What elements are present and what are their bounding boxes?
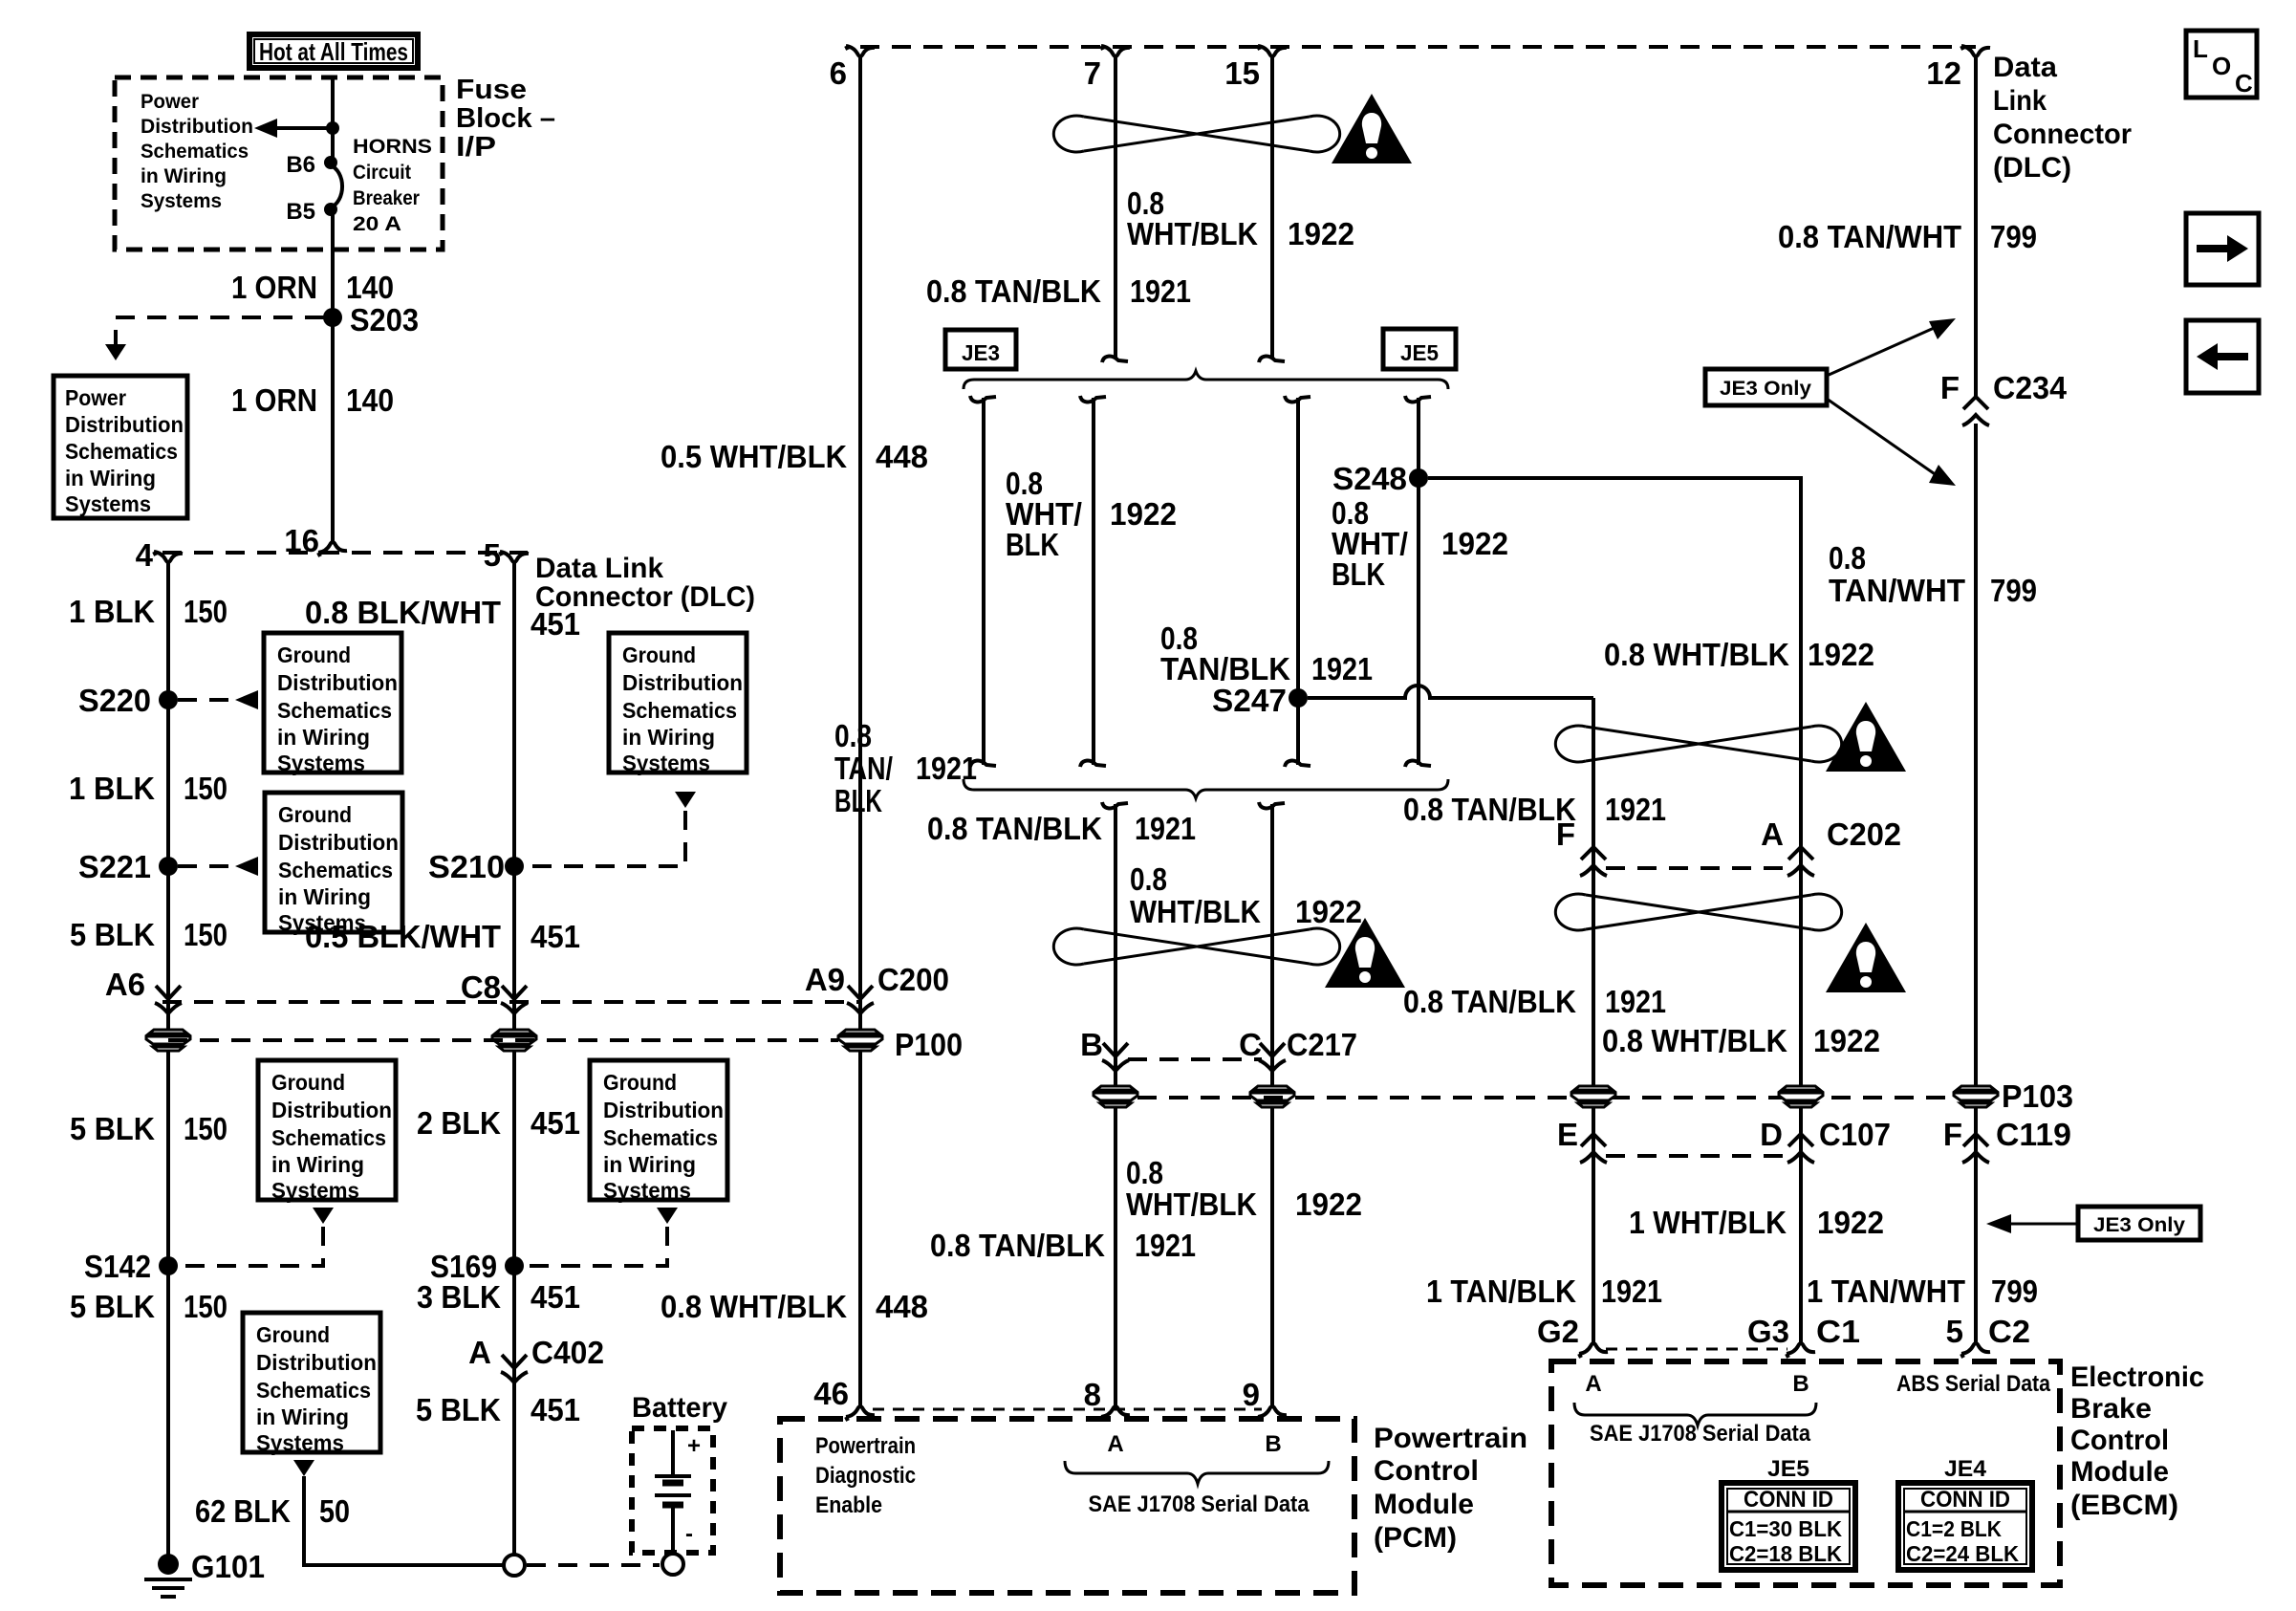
battery negative ring xyxy=(662,1554,683,1575)
svg-text:S247: S247 xyxy=(1212,683,1287,718)
svg-text:Control: Control xyxy=(2070,1425,2169,1456)
svg-text:448: 448 xyxy=(876,439,928,474)
svg-text:1922: 1922 xyxy=(1110,496,1177,532)
svg-text:451: 451 xyxy=(531,919,580,954)
svg-text:G2: G2 xyxy=(1537,1314,1579,1349)
svg-text:B: B xyxy=(1265,1431,1281,1457)
svg-text:TAN/WHT: TAN/WHT xyxy=(1829,573,1965,608)
grommet E xyxy=(1571,1086,1615,1107)
pin 16 hook xyxy=(318,531,347,556)
svg-text:Systems: Systems xyxy=(141,190,222,212)
svg-text:in Wiring: in Wiring xyxy=(65,466,156,490)
twisted pair symbol xyxy=(1555,726,1841,762)
svg-text:SAE J1708 Serial Data: SAE J1708 Serial Data xyxy=(1089,1491,1310,1517)
svg-text:0.8 TAN/BLK: 0.8 TAN/BLK xyxy=(930,1228,1105,1263)
wire 1921 to PCM 8 xyxy=(1114,804,1117,1400)
svg-text:(DLC): (DLC) xyxy=(1993,152,2071,184)
svg-text:0.8 WHT/BLK: 0.8 WHT/BLK xyxy=(661,1289,847,1324)
svg-text:8: 8 xyxy=(1084,1377,1101,1412)
svg-text:(PCM): (PCM) xyxy=(1374,1522,1457,1554)
svg-text:B5: B5 xyxy=(286,199,315,225)
splice S203 xyxy=(323,308,342,327)
svg-text:E: E xyxy=(1557,1117,1578,1152)
svg-text:46: 46 xyxy=(813,1376,849,1411)
svg-text:451: 451 xyxy=(531,606,580,642)
svg-text:0.8 WHT/BLK: 0.8 WHT/BLK xyxy=(1602,1023,1787,1058)
back arrow box xyxy=(2186,320,2259,393)
svg-text:D: D xyxy=(1760,1117,1783,1152)
svg-text:B: B xyxy=(1792,1371,1809,1397)
svg-text:C402: C402 xyxy=(531,1335,604,1370)
svg-text:Link: Link xyxy=(1993,85,2047,117)
svg-text:Breaker: Breaker xyxy=(353,187,420,209)
Power Distribution Schematics box xyxy=(54,376,187,518)
svg-text:Schematics: Schematics xyxy=(65,439,178,464)
lower brace xyxy=(964,779,1448,798)
svg-text:12: 12 xyxy=(1926,55,1961,91)
warning triangle xyxy=(1826,923,1906,992)
svg-text:5: 5 xyxy=(1946,1314,1963,1349)
grommets on 1921/1922 xyxy=(1094,1086,1137,1107)
svg-text:P103: P103 xyxy=(2002,1078,2073,1114)
connector C200 crossing (C8) xyxy=(501,986,528,1013)
DLC top connector dashed line xyxy=(860,45,1976,49)
svg-text:P100: P100 xyxy=(895,1027,963,1062)
wire 1922 drop (from S248) xyxy=(1799,478,1803,1339)
arrow under box 3 xyxy=(313,1208,334,1224)
splice S221 xyxy=(159,857,178,876)
EBCM brace xyxy=(1574,1403,1816,1426)
svg-text:Distribution: Distribution xyxy=(65,412,184,437)
svg-text:0.8 TAN/BLK: 0.8 TAN/BLK xyxy=(927,811,1102,846)
svg-text:Distribution: Distribution xyxy=(141,116,253,138)
svg-text:G3: G3 xyxy=(1747,1314,1789,1349)
svg-text:C200: C200 xyxy=(877,962,949,997)
svg-text:BLK: BLK xyxy=(1006,527,1059,562)
splice S210 xyxy=(505,857,524,876)
LOC box xyxy=(2186,31,2257,98)
svg-text:451: 451 xyxy=(531,1105,580,1141)
svg-text:A: A xyxy=(1107,1431,1123,1457)
ground G101 xyxy=(158,1554,179,1575)
svg-text:799: 799 xyxy=(1990,573,2037,608)
dashed reference to ground box 1 xyxy=(178,698,233,702)
svg-text:150: 150 xyxy=(184,1111,227,1146)
svg-text:Electronic: Electronic xyxy=(2070,1361,2204,1393)
ground distribution box 3 xyxy=(258,1060,396,1203)
svg-text:+: + xyxy=(687,1433,701,1459)
dashed reference S210 xyxy=(526,811,685,866)
svg-text:Data Link: Data Link xyxy=(535,553,663,584)
svg-text:1921: 1921 xyxy=(1130,273,1191,309)
svg-text:Hot at All Times: Hot at All Times xyxy=(259,37,408,66)
svg-text:3 BLK: 3 BLK xyxy=(417,1279,501,1315)
wire 448 xyxy=(858,67,862,1400)
svg-text:-: - xyxy=(685,1521,693,1547)
svg-text:1921: 1921 xyxy=(1601,1274,1662,1309)
splice S220 xyxy=(159,690,178,709)
svg-text:50: 50 xyxy=(319,1493,350,1529)
junction node on feed xyxy=(326,121,339,135)
svg-text:C2: C2 xyxy=(1988,1314,2030,1349)
svg-text:JE5: JE5 xyxy=(1400,340,1439,365)
dashed reference from S203 to Power Distribution box xyxy=(116,317,324,344)
svg-text:WHT/BLK: WHT/BLK xyxy=(1126,1186,1257,1222)
svg-text:1921: 1921 xyxy=(1135,1228,1196,1263)
wire from S248 to 1922 drop xyxy=(1428,478,1801,497)
svg-text:0.8: 0.8 xyxy=(1126,1155,1163,1190)
svg-text:451: 451 xyxy=(531,1392,580,1427)
svg-text:Systems: Systems xyxy=(65,491,151,516)
svg-text:S248: S248 xyxy=(1332,461,1407,496)
svg-text:C119: C119 xyxy=(1996,1117,2071,1152)
svg-text:1922: 1922 xyxy=(1808,637,1874,672)
ground distribution box 2 xyxy=(265,793,402,935)
svg-text:C1=2 BLK: C1=2 BLK xyxy=(1906,1516,2002,1541)
EBCM dashed box xyxy=(1551,1361,2060,1585)
svg-text:799: 799 xyxy=(1991,1274,2038,1309)
JE3 Only tag box 2 xyxy=(2078,1207,2200,1240)
svg-text:S220: S220 xyxy=(78,683,151,718)
svg-text:150: 150 xyxy=(184,771,227,806)
dashed reference S142 xyxy=(180,1227,323,1266)
svg-text:A9: A9 xyxy=(805,962,845,997)
twisted pair symbol xyxy=(1053,928,1339,965)
JE3 Only arrow 2 xyxy=(2000,1223,2078,1226)
svg-text:F: F xyxy=(1556,816,1575,852)
svg-text:ABS Serial Data: ABS Serial Data xyxy=(1896,1371,2051,1397)
svg-text:0.8 WHT/BLK: 0.8 WHT/BLK xyxy=(1604,637,1789,672)
svg-text:TAN/: TAN/ xyxy=(834,751,893,786)
warning triangle xyxy=(1332,94,1412,163)
svg-text:20 A: 20 A xyxy=(353,213,401,235)
ground distribution box 1 xyxy=(264,633,401,775)
arrow under box 4 xyxy=(293,1460,314,1476)
svg-text:62 BLK: 62 BLK xyxy=(195,1493,291,1529)
svg-text:S203: S203 xyxy=(350,302,419,337)
svg-text:7: 7 xyxy=(1084,55,1101,91)
svg-text:Battery: Battery xyxy=(632,1392,727,1424)
svg-text:0.8 TAN/BLK: 0.8 TAN/BLK xyxy=(1403,984,1576,1019)
svg-text:C217: C217 xyxy=(1287,1027,1357,1062)
wire SP2 xyxy=(1092,398,1095,765)
dashed link to battery xyxy=(527,1563,660,1567)
dashed C202 line xyxy=(1606,866,1787,870)
svg-text:Block –: Block – xyxy=(456,103,555,134)
arrow to power distribution xyxy=(270,126,333,130)
svg-text:TAN/BLK: TAN/BLK xyxy=(1160,651,1290,686)
svg-text:S142: S142 xyxy=(84,1249,151,1284)
twisted pair symbol xyxy=(1053,116,1339,152)
dashed C200 line xyxy=(162,1000,860,1004)
svg-text:JE3 Only: JE3 Only xyxy=(1720,378,1811,400)
svg-text:C202: C202 xyxy=(1827,816,1901,852)
svg-text:C234: C234 xyxy=(1993,370,2068,405)
svg-text:in Wiring: in Wiring xyxy=(141,165,227,187)
svg-text:A: A xyxy=(1761,816,1784,852)
svg-text:1 BLK: 1 BLK xyxy=(69,771,155,806)
warning triangle xyxy=(1826,702,1906,772)
svg-text:1 BLK: 1 BLK xyxy=(69,594,155,629)
svg-text:JE5: JE5 xyxy=(1767,1456,1809,1482)
svg-text:SAE J1708 Serial Data: SAE J1708 Serial Data xyxy=(1590,1421,1811,1447)
svg-text:JE4: JE4 xyxy=(1944,1456,1987,1482)
svg-text:Module: Module xyxy=(2070,1456,2169,1488)
svg-text:WHT/BLK: WHT/BLK xyxy=(1130,894,1261,929)
dashed P100 line xyxy=(168,1038,838,1042)
dashed grommet line to P103 xyxy=(1137,1096,1954,1099)
svg-text:1921: 1921 xyxy=(1311,651,1373,686)
svg-text:140: 140 xyxy=(346,382,394,418)
svg-text:1921: 1921 xyxy=(1605,792,1666,827)
svg-text:Enable: Enable xyxy=(815,1492,882,1518)
DLC dashed connector line xyxy=(162,551,528,555)
svg-text:448: 448 xyxy=(876,1289,928,1324)
svg-text:5 BLK: 5 BLK xyxy=(416,1392,501,1427)
ground distribution box 5 (S210 ref) xyxy=(609,633,747,775)
svg-text:1922: 1922 xyxy=(1288,216,1354,251)
grommet on 451 wire xyxy=(492,1030,536,1051)
splice S247 xyxy=(1289,688,1308,708)
JE3 Only tag box xyxy=(1705,369,1827,405)
wire from fuse box top to B6 xyxy=(331,77,335,163)
svg-text:Power: Power xyxy=(141,91,199,113)
terminal B6 xyxy=(324,156,337,169)
svg-text:Data: Data xyxy=(1993,52,2057,83)
svg-text:150: 150 xyxy=(184,594,227,629)
wire 1922 from pin 15 xyxy=(1270,67,1274,358)
svg-text:1 ORN: 1 ORN xyxy=(231,270,317,305)
svg-text:B: B xyxy=(1080,1027,1103,1062)
svg-text:1921: 1921 xyxy=(916,751,977,786)
svg-text:L: L xyxy=(2193,34,2208,63)
svg-text:Powertrain: Powertrain xyxy=(1374,1423,1527,1454)
svg-text:JE3: JE3 xyxy=(962,340,1000,365)
wire SP4 xyxy=(1417,398,1420,765)
svg-text:5: 5 xyxy=(484,537,501,573)
svg-text:5 BLK: 5 BLK xyxy=(70,917,155,952)
arrow under box 6 xyxy=(657,1208,678,1224)
svg-text:1922: 1922 xyxy=(1441,526,1508,561)
svg-text:15: 15 xyxy=(1224,55,1260,91)
JE3 Only arrows xyxy=(1827,325,1940,376)
ground distribution box 6 (S169 ref) xyxy=(590,1060,727,1203)
svg-text:CONN ID: CONN ID xyxy=(1744,1487,1833,1513)
svg-text:451: 451 xyxy=(531,1279,580,1315)
wire from S247 to 1921 drop (hops SP4) xyxy=(1308,686,1593,698)
connector C200 crossing (A6) xyxy=(155,986,182,1013)
svg-text:799: 799 xyxy=(1990,219,2037,254)
svg-text:BLK: BLK xyxy=(1332,556,1385,592)
svg-text:1 TAN/WHT: 1 TAN/WHT xyxy=(1807,1274,1965,1309)
arrow under box 5 xyxy=(675,792,696,808)
svg-text:C8: C8 xyxy=(461,969,501,1005)
grommet on left wire xyxy=(146,1030,190,1051)
dashed reference S169 xyxy=(526,1227,667,1266)
svg-text:0.8: 0.8 xyxy=(1829,540,1866,576)
wire from box 4 to junction xyxy=(304,1476,504,1565)
terminal B5 xyxy=(324,203,337,216)
svg-text:A6: A6 xyxy=(105,967,145,1002)
svg-text:C2=24 BLK: C2=24 BLK xyxy=(1906,1541,2019,1566)
svg-text:(EBCM): (EBCM) xyxy=(2070,1490,2178,1521)
svg-text:150: 150 xyxy=(184,917,227,952)
PCM brace xyxy=(1065,1461,1329,1484)
warning triangle xyxy=(1325,918,1405,988)
svg-text:1922: 1922 xyxy=(1813,1023,1880,1058)
svg-text:1921: 1921 xyxy=(1605,984,1666,1019)
wire pin5 down to battery junction xyxy=(512,573,516,1555)
svg-text:BLK: BLK xyxy=(834,783,882,818)
svg-text:6: 6 xyxy=(830,55,847,91)
svg-text:Module: Module xyxy=(1374,1489,1474,1520)
svg-text:5 BLK: 5 BLK xyxy=(70,1289,155,1324)
svg-text:C2=18 BLK: C2=18 BLK xyxy=(1729,1541,1842,1566)
svg-text:5 BLK: 5 BLK xyxy=(70,1111,155,1146)
dashed reference to ground box 2 xyxy=(178,864,233,868)
dashed pin line 46-8-9 xyxy=(873,1408,1262,1411)
wire 1921 from pin 7 xyxy=(1114,67,1117,358)
twisted pair symbol xyxy=(1555,894,1841,930)
svg-text:C: C xyxy=(2235,69,2253,98)
wire 799 from pin 12 xyxy=(1974,67,1978,400)
grommet P100 xyxy=(838,1030,882,1051)
wire SP3 xyxy=(1296,398,1300,765)
svg-text:0.5 BLK/WHT: 0.5 BLK/WHT xyxy=(305,919,501,954)
battery junction ring xyxy=(504,1555,525,1576)
Hot at All Times box xyxy=(249,34,418,68)
svg-text:O: O xyxy=(2212,52,2231,80)
svg-text:CONN ID: CONN ID xyxy=(1920,1487,2010,1513)
svg-text:1922: 1922 xyxy=(1295,1186,1362,1222)
svg-text:I/P: I/P xyxy=(456,132,496,163)
svg-text:C1=30 BLK: C1=30 BLK xyxy=(1729,1516,1842,1541)
upper brace xyxy=(964,371,1448,389)
svg-text:0.8 BLK/WHT: 0.8 BLK/WHT xyxy=(305,595,501,630)
svg-text:WHT/BLK: WHT/BLK xyxy=(1127,216,1258,251)
svg-text:140: 140 xyxy=(346,270,394,305)
wire 1921 drop (from S247) xyxy=(1592,698,1595,1339)
svg-text:F: F xyxy=(1943,1117,1962,1152)
svg-text:B6: B6 xyxy=(286,152,315,178)
svg-text:1 ORN: 1 ORN xyxy=(231,382,317,418)
svg-text:1921: 1921 xyxy=(1135,811,1196,846)
svg-text:1 WHT/BLK: 1 WHT/BLK xyxy=(1629,1205,1787,1240)
dashed C107 line xyxy=(1606,1154,1787,1158)
battery dashed box xyxy=(632,1428,713,1553)
dashed pin line G2-G3 xyxy=(1606,1348,1787,1351)
wire B5 down to pin 16 xyxy=(331,211,335,535)
svg-text:0.8 TAN/BLK: 0.8 TAN/BLK xyxy=(1403,792,1576,827)
svg-text:0.5 WHT/BLK: 0.5 WHT/BLK xyxy=(661,439,847,474)
svg-text:G101: G101 xyxy=(191,1549,265,1584)
svg-text:JE3 Only: JE3 Only xyxy=(2093,1214,2185,1236)
svg-text:C107: C107 xyxy=(1819,1117,1891,1152)
svg-text:Control: Control xyxy=(1374,1455,1479,1487)
wire pin4 down to G101 xyxy=(166,573,170,1555)
splice S142 xyxy=(159,1256,178,1275)
svg-text:A: A xyxy=(1585,1371,1601,1397)
svg-text:0.8 TAN/BLK: 0.8 TAN/BLK xyxy=(926,273,1101,309)
svg-text:4: 4 xyxy=(136,537,154,573)
svg-text:9: 9 xyxy=(1243,1377,1260,1412)
grommet D xyxy=(1779,1086,1823,1107)
JE5 tag box xyxy=(1383,329,1456,369)
splice S169 xyxy=(505,1256,524,1275)
battery symbol xyxy=(655,1430,691,1554)
svg-text:Brake: Brake xyxy=(2070,1393,2152,1425)
svg-text:2 BLK: 2 BLK xyxy=(417,1105,501,1141)
splice S248 xyxy=(1409,468,1428,488)
forward arrow box xyxy=(2186,213,2259,285)
wire 1922 to PCM 9 xyxy=(1270,804,1274,1400)
svg-text:C1: C1 xyxy=(1816,1314,1860,1349)
svg-text:Circuit: Circuit xyxy=(353,162,411,184)
Fuse Block I/P dashed box xyxy=(115,77,443,250)
svg-text:150: 150 xyxy=(184,1289,227,1324)
svg-text:1 TAN/BLK: 1 TAN/BLK xyxy=(1426,1274,1576,1309)
svg-text:0.8: 0.8 xyxy=(1130,861,1167,897)
svg-text:S221: S221 xyxy=(78,849,151,884)
svg-text:Schematics: Schematics xyxy=(141,141,249,163)
svg-text:Power: Power xyxy=(65,385,126,410)
JE3 tag box xyxy=(945,330,1016,369)
grommet P103 xyxy=(1954,1086,1998,1107)
svg-text:0.8: 0.8 xyxy=(834,718,872,753)
svg-text:1922: 1922 xyxy=(1817,1205,1884,1240)
svg-text:Connector: Connector xyxy=(1993,119,2132,150)
PCM dashed box xyxy=(780,1419,1354,1593)
svg-text:C: C xyxy=(1239,1027,1262,1062)
wire SP1 xyxy=(982,398,986,765)
svg-text:S210: S210 xyxy=(428,849,505,884)
arrow into box xyxy=(105,344,126,360)
HORNS circuit breaker arc xyxy=(331,165,342,207)
svg-text:Diagnostic: Diagnostic xyxy=(815,1463,916,1489)
svg-text:Powertrain: Powertrain xyxy=(815,1433,916,1459)
svg-text:0.8 TAN/WHT: 0.8 TAN/WHT xyxy=(1778,219,1961,254)
svg-text:A: A xyxy=(468,1335,491,1370)
svg-text:F: F xyxy=(1940,370,1960,405)
svg-text:HORNS: HORNS xyxy=(353,136,432,158)
dashed C217 line xyxy=(1128,1057,1262,1061)
ground distribution box 4 xyxy=(243,1313,380,1455)
svg-text:1922: 1922 xyxy=(1295,894,1362,929)
svg-text:Fuse: Fuse xyxy=(456,75,527,105)
